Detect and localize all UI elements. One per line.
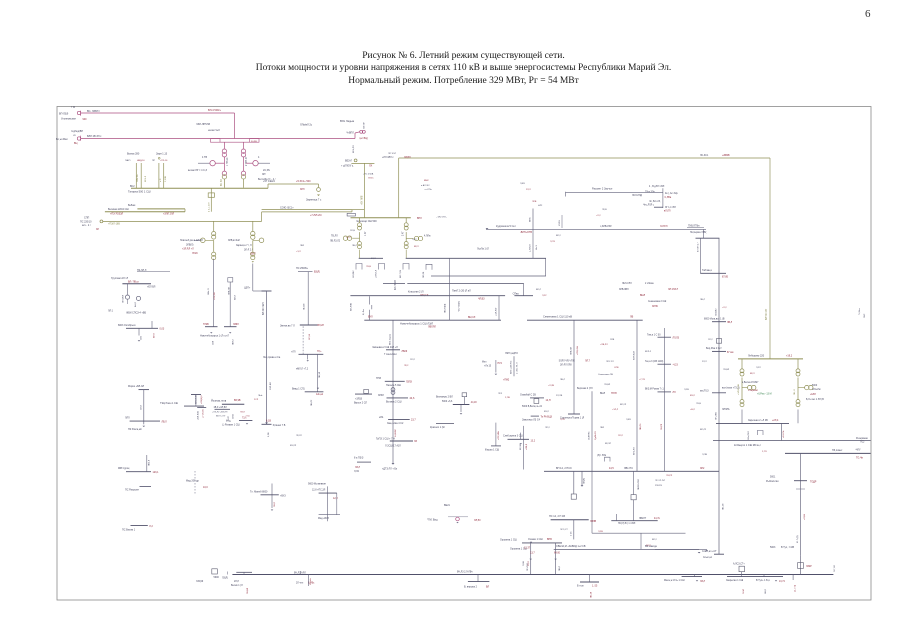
wire bus tie [184,209,186,212]
svg-text:5ЛЛЛ ЧЛУ-ЛЛК: 5ЛЛЛ ЧЛУ-ЛЛК [559,360,576,362]
svg-text:Мед,: Мед, [226,420,232,422]
svg-text:+ПЗ-70/ЗЗЛ: +ПЗ-70/ЗЗЛ [110,213,124,216]
svg-text:Заволжск ЛЗ С4: Заволжск ЛЗ С4 [522,419,541,422]
sub TlManey [261,494,279,496]
sub Morki bus [130,420,160,422]
svg-text:ВКЗ,М Рокам 7 (.): ВКЗ,М Рокам 7 (.) [645,389,664,391]
arrow Volzhsk end [392,463,395,465]
svg-text:Рассвет 2 Заучшт: Рассвет 2 Заучшт [592,187,613,190]
sub Mgzvevkin [319,492,337,494]
svg-text:Заряев,а 7 /, Л: Заряев,а 7 /, Л [236,245,252,247]
svg-text:-ВЛП+ОТВ: -ВЛП+ОТВ [520,231,532,234]
svg-text:Ве5ам: Ве5ам [128,204,136,207]
svg-text:Р20/25: Р20/25 [655,485,663,487]
transformer Lebedevo B1 [796,369,800,373]
wire Lesnoy west [655,548,707,550]
svg-text:6,1В: 6,1В [266,419,271,422]
generator ChGES b [362,130,365,133]
svg-text:ВЗ,ЛЛ: ВЗ,ЛЛ [290,445,297,447]
svg-text:Таблан,и: Таблан,и [702,269,713,272]
svg-text:ЗЛ2С: ЗЛ2С [368,178,374,180]
svg-text:+Лк 15: +Лк 15 [484,366,492,368]
svg-text:ЛЗ: ЛЗ [414,441,418,443]
svg-text:+2С: +2С [228,416,230,420]
svg-text:Семеновка ЛВ: Семеновка ЛВ [598,374,613,376]
wire gen2 lead [258,162,270,164]
arrow pomary [456,522,458,523]
sub bar NchT B [224,326,237,328]
arrow slvb [519,443,522,444]
svg-text:ЗЛ2: ЗЛ2 [700,467,705,470]
svg-text:Л,ВЗ: Л,ВЗ [626,419,631,421]
svg-text:Визнаяры 2 ВЛ: Визнаяры 2 ВЛ [436,395,453,398]
bus Tatarskaya 500 2SSh [137,208,185,210]
sub Krasnos [436,423,454,425]
generator G2 [253,161,258,166]
svg-text:+ дЛЛОЛ/ ц: + дЛЛОЛ/ ц [341,166,354,168]
svg-text:ВЛ,БЛ,М: ВЛ,БЛ,М [196,395,198,404]
load box 719 [716,339,721,344]
load box colC [228,278,233,282]
load bracket 3 [403,264,409,270]
svg-text:НУ2: НУ2 [498,363,503,365]
sub Viznayary [453,404,470,406]
svg-text:+ЗЛ,ВЛ ЗВ: +ЗЛ,ВЛ ЗВ [738,384,740,395]
svg-text:ВНВ: ВНВ [547,539,552,541]
bus PS 14-2 P1V [551,519,589,521]
svg-text:+ЗЛ,ЛЗГ: +ЗЛ,ЛЗГ [496,307,498,316]
svg-text:ЛЗ9Л: ЛЗ9Л [233,324,239,326]
svg-text:ЛВ,-Л: ЛВ,-Л [794,389,796,395]
svg-text:8003 Октябрьск: 8003 Октябрьск [118,324,136,327]
svg-text:ЛЗС: ЛЗС [864,313,866,318]
svg-text:4 ТВ: 4 ТВ [202,156,207,159]
svg-text:Резервная: Резервная [856,437,868,440]
wire gen1 lead [198,162,210,164]
wire zveni dash [302,326,304,341]
svg-text:ЛузЛа 1 (Л: ЛузЛа 1 (Л [477,247,489,250]
bus Zarechnaya [716,422,789,424]
bus Tatarskaya 220 [105,211,185,213]
wire VL500 east drop [769,158,771,359]
svg-text:Л,2Л: Л,2Л [756,367,761,369]
svg-text:Л-7,ЗЛ: Л-7,ЗЛ [834,565,836,572]
arrow mkl [495,374,498,375]
svg-text:ВЛ,2Л: ВЛ,2Л [620,404,627,406]
svg-text:ВМС: ВМС [424,180,429,182]
wire stub562 [561,215,563,228]
svg-text:ЗЛ-ЛЛ ЛЛ8: ЗЛ-ЛЛ ЛЛ8 [560,364,572,366]
bus Semenovka 1SSh [527,319,643,321]
svg-text:1В,9 +ЗЛ,БЛ: 1В,9 +ЗЛ,БЛ [214,407,228,409]
svg-text:Чапаевка 2 СШ 44Л +Л: Чапаевка 2 СШ 44Л +Л [372,346,398,349]
svg-text:ЛЗ,В: ЛЗ,В [366,266,371,268]
svg-text:ВЗ,Л: ВЗ,Л [544,411,549,413]
svg-text:Заю,ллва 4 С2: Заю,ллва 4 С2 [387,422,404,425]
svg-text:ЛЛС 2Л: ЛЛС 2Л [606,361,614,363]
wire pomary [448,516,468,518]
autotransformer AT-B lower [241,171,245,175]
svg-text:ЛЬ,ВЛ: ЛЬ,ВЛ [304,303,306,310]
svg-text:ВЫЛ: ВЫЛ [600,393,606,395]
svg-text:+Л,2: +Л,2 [596,215,601,217]
svg-text:Р,свнал 7 В: Р,свнал 7 В [273,424,286,427]
svg-text:Б,Л+ веч 1 ЛЛ (В: Б,Л+ веч 1 ЛЛ (В [806,399,824,401]
svg-text:2Л,Л: 2Л,Л [646,545,651,547]
sub bar 664 [658,391,672,393]
svg-text:ВЕ21: ВЕ21 [444,504,451,507]
load box ozambay [534,399,539,404]
node Cheboksary500 [354,159,357,162]
sub Igranat [712,321,726,323]
svg-text:44,6: 44,6 [410,397,415,400]
transformer NchTETs A [212,232,216,236]
wire olive colB [252,221,254,231]
wire mad dash [194,471,196,495]
wire olive colA [213,221,215,231]
svg-text:1,-25: 1,-25 [592,586,598,588]
svg-text:ВУ,Л +ЛУ: ВУ,Л +ЛУ [216,415,226,417]
sub Taiganovo top [696,237,720,239]
arrow medv [246,423,248,424]
svg-text:ТЭЦ Рокш 1 СШ: ТЭЦ Рокш 1 СШ [160,402,178,405]
svg-text:ВС ЗЛ: ВС ЗЛ [221,179,223,186]
wire chb xfA top [359,218,361,223]
svg-text:Велик 1 (Л: Велик 1 (Л [231,584,243,587]
sub Taganovo [700,272,726,274]
svg-text:+ЛУ,Н2А: +ЛУ,Н2А [576,346,579,355]
wire okt stub1 [138,328,140,335]
svg-text:ВЫ,СЛ: ВЫ,СЛ [468,317,476,319]
svg-text:5900: 5900 [214,576,220,579]
svg-text:Заря 1,13: Заря 1,13 [156,153,168,156]
bar V1 top [262,290,272,292]
svg-text:Л,2: Л,2 [149,526,153,528]
svg-text:Мкл: Мкл [482,362,487,364]
arrow zakr [775,580,777,581]
svg-text:Вкрыл 2 СЛ: Вкрыл 2 СЛ [354,402,367,405]
svg-text:ЗЛЬ-ЗЬ: ЗЛЬ-ЗЬ [137,174,139,182]
svg-text:+ЛУ,Л-Л: +ЛУ,Л-Л [376,269,378,278]
svg-text:ЛЗ,Л: ЛЗ,Л [274,502,276,507]
svg-text:13,2: 13,2 [531,441,536,443]
bus PS14 second [611,520,657,522]
svg-text:123,1: 123,1 [153,471,160,474]
svg-text:+ЗЛЛ 2ЛЛ: +ЗЛЛ 2ЛЛ [163,213,175,216]
svg-text:Великая 220/2 СШ: Великая 220/2 СШ [108,208,129,211]
bus NchB mid [350,295,505,297]
bus Yola west wing [197,407,206,409]
transformer chb AT1 [358,223,362,227]
svg-text:ВУ,Л: ВУ,Л [414,246,419,248]
transformer Lebedevo B2 [796,400,800,404]
svg-text:СОЮ /ЗС1+: СОЮ /ЗС1+ [280,206,294,209]
svg-text:5001: 5001 [770,475,776,478]
svg-text:ГЛек ЗЛн: ГЛек ЗЛн [645,192,655,194]
load box vkryl [364,389,369,393]
svg-text:Йошкар,ла ■: Йошкар,ла ■ [211,400,226,403]
sub Razrshen [140,485,152,487]
svg-text:Чес,ЛЛЛ с: Чес,ЛЛЛ с [643,205,655,207]
svg-text:НПЗ: НПЗ [376,377,381,380]
svg-text:Волжск 2 СШ: Волжск 2 СШ [386,401,402,404]
svg-text:+ВУЗ: +ВУЗ [280,496,286,498]
svg-text:ВЛ-ЛЛВ: ВЛ-ЛЛВ [351,303,353,311]
svg-text:в,Волна 15ЧМ7: в,Волна 15ЧМ7 [742,382,759,384]
title line 3 [11,76,905,86]
wire zveni dash2 [302,341,304,354]
svg-text:23,7: 23,7 [411,419,416,422]
sub Veryuzha [468,581,490,583]
svg-text:ЛВ,ЗЛ: ЛВ,ЗЛ [591,591,593,598]
sub bar 664 upper [658,336,672,338]
line Yoshkar-Ola - Tsentralnaya (long south line) [232,574,833,576]
sub Zavolzhsky [531,415,539,417]
svg-text:СЛВ: СЛВ [614,367,619,369]
svg-text:2 ТВГ АТ: 2 ТВГ АТ [245,156,248,166]
svg-text:ЛЛа/вЛ 2с: ЛЛа/вЛ 2с [300,123,313,127]
svg-text:87,85: 87,85 [722,276,729,279]
wire leb xfB3 [797,410,799,424]
wire Rassvet line [566,191,663,193]
svg-text:2 зЛимн: 2 зЛимн [645,283,654,285]
svg-text:на ваг Чеб: на ваг Чеб [208,129,220,132]
svg-text:Семеновка 1 СШ 110 кВ: Семеновка 1 СШ 110 кВ [543,314,572,318]
svg-text:14,9ЛМ: 14,9ЛМ [395,429,397,437]
reactor box [208,193,214,197]
wire Vtyazh stub [589,575,591,583]
sub bar teka [658,363,672,365]
svg-text:Группам АЛ тЛ: Группам АЛ тЛ [111,277,129,280]
wire V592 dn [591,471,593,519]
svg-text:ЧУ: ЧУ [73,135,76,137]
wire stub 633 [633,471,635,494]
svg-text:+0,Риа - 13 М: +0,Риа - 13 М [757,393,772,395]
svg-text:ЛВ,ЗЛ: ЛВ,ЗЛ [319,371,321,378]
svg-text:+2Л,4: +2Л,4 [772,419,779,422]
wire veryuzha stub [477,575,479,582]
sub bar NchT A [205,326,218,328]
arrow okt [138,340,141,341]
svg-text:Л 2СШ 17,41Л: Л 2СШ 17,41Л [385,445,401,448]
svg-text:ЛВ2: ЛВ2 [300,245,305,247]
svg-text:ВЛ,2Л: ВЛ,2Л [318,325,325,327]
autotransformer AT-B upper [241,149,245,153]
svg-text:в АЛ /5С: в АЛ /5С [421,184,430,187]
svg-text:ЗЛ,Л: ЗЛ,Л [410,359,415,361]
svg-text:87 мм: 87 мм [727,352,734,354]
generator Kozm G1 [125,295,129,299]
wire mid stub [498,296,500,321]
transformer NchTETs B2 [251,252,255,256]
svg-text:Л,2В: Л,2В [684,389,689,391]
svg-text:Мад 209 др: Мад 209 др [186,480,199,483]
svg-text:+ЛЛ: +ЛЛ [291,352,296,354]
svg-text:ВЗ(Л): ВЗ(Л) [314,272,320,274]
svg-text:2Л,Л: 2Л,Л [234,581,239,583]
svg-text:ЛЗ,ВЛ: ЛЗ,ВЛ [723,369,730,371]
page number [865,8,871,20]
svg-text:ВС- ЛЗВЛ /: ВС- ЛЗВЛ / [87,110,100,113]
arrow line229 [486,228,489,229]
svg-text:Ссыл,ал: Ссыл,ал [703,557,713,559]
sync condenser B1 [414,236,418,240]
svg-text:ЗЛЛ: ЗЛЛ [300,189,305,191]
svg-text:вЛ,ЛЛ: вЛ,ЛЛ [664,211,671,213]
transformer Lebedevo A1 [740,369,744,373]
wire leb xfA [741,359,743,370]
svg-text:Лебедево 220: Лебедево 220 [748,354,765,357]
sub Zakrytaya [727,576,783,578]
svg-text:5000 +6,6: 5000 +6,6 [442,401,453,403]
sub 8a PZ [357,461,371,463]
wire line533 [592,532,686,534]
sync condenser Kilemary G1a [748,385,752,389]
svg-text:ЛВ,Л: ЛВ,Л [352,245,358,247]
svg-text:Мале,ж Усть 1 СШ: Мале,ж Усть 1 СШ [664,579,684,582]
svg-text:Во,ъя Мал: Во,ъя Мал [56,138,68,141]
svg-text:ветам ЛР = 4 С,З: ветам ЛР = 4 С,З [188,169,207,172]
arrow lesnoy [698,552,701,553]
bus NZ line [785,452,871,454]
svg-text:С,ЛВа: С,ЛВа [665,197,672,199]
wire v800 tick [796,488,805,490]
wire VL-500 Ulyanovskaya [81,112,235,114]
wire gen2 tie [246,162,253,164]
svg-text:+19,2: +19,2 [786,354,793,357]
bus NchB mid b [514,295,533,297]
svg-text:+ЛС 2Л2А: +ЛС 2Л2А [363,173,374,176]
sub TETs Roksha [184,405,204,407]
wire AT-B bottom [243,179,245,188]
wire V701 [699,238,701,273]
sub Malinovka [682,576,702,578]
svg-text:+ЗЛ1В: +ЗЛ1В [355,399,362,401]
svg-text:Вохма 280: Вохма 280 [127,153,140,156]
svg-text:+З,Л: +З,Л [296,251,301,253]
wire chb drop [363,163,365,217]
wire Y1 step [267,184,269,188]
svg-text:ЗЛ,В: ЗЛ,В [350,230,355,232]
svg-text:4,ЛЛw: 4,ЛЛw [424,236,431,238]
svg-text:64,00: 64,00 [554,551,561,554]
svg-text:Звениг,ва 7 Л: Звениг,ва 7 Л [280,325,295,328]
svg-text:Л,Л2: Л,Л2 [354,471,360,473]
svg-text:+ЛЗ,ЛВ: +ЛЗ,ЛВ [214,292,216,300]
stal endbar [654,206,663,208]
svg-text:2Л чел: 2Л чел [296,583,304,585]
bus Ozinki upper [522,542,562,544]
svg-text:КЛЯ-82Л: КЛЯ-82Л [634,351,636,360]
wire 220 corridor [103,220,262,222]
svg-text:ЗГ 1,4 /ЛЛ: ЗГ 1,4 /ЛЛ [665,207,676,209]
svg-text:Л,ВЗ: Л,ВЗ [520,183,525,185]
title line 1 [11,51,905,61]
sync condenser Kilemary G2b [809,385,813,389]
svg-text:(1,-7,3): (1,-7,3) [795,585,797,592]
svg-text:ЛЛ,ЛЗ: ЛЛ,ЛЗ [673,338,680,340]
svg-text:ЛВ2: ЛВ2 [600,427,605,429]
svg-text:НЛ2: НЛ2 [538,205,543,207]
svg-text:ЛВ,Л: ЛВ,Л [700,299,706,301]
svg-text:ЗС,04: ЗС,04 [309,333,311,340]
svg-text:ЛЭП (на)ПО: ЛЭП (на)ПО [505,353,518,355]
svg-text:2Л,Л: 2Л,Л [528,561,530,566]
svg-text:ЗЛВ-ЗВЛ: ЗЛВ-ЗВЛ [619,289,629,291]
svg-text:+ЛЗ,Л2 +ВЗ,ЛЛ: +ЛЗ,Л2 +ВЗ,ЛЛ [212,411,228,413]
wire ANS down [308,575,310,587]
svg-text:ВН 14, 2 ПСЗ: ВН 14, 2 ПСЗ [556,467,572,470]
arrow zk2 [554,559,557,560]
svg-text:4 , В,дЛЛ 1 ВЛ: 4 , В,дЛЛ 1 ВЛ [649,186,665,188]
svg-text:ЛСЛ-ЛЛД: ЛСЛ-ЛЛД [632,195,642,197]
sub Biryuva [712,350,726,352]
svg-text:ЗВЬ-Л: ЗВЬ-Л [208,288,210,295]
svg-text:-ЧЛУ: -ЧЛУ [855,449,861,452]
generator Kozm G2 [136,296,140,300]
svg-text:(ел ВЦ): (ел ВЦ) [360,137,368,140]
svg-text:ЛУ29: ЛУ29 [192,253,198,255]
wire olive colB2 [252,241,254,252]
wire chb xfB dn [405,250,407,258]
generator G1 [210,161,215,166]
node Ulyanovskaya 500 [77,111,80,114]
svg-text:ПР: ПР [152,160,156,162]
svg-text:ЗЛ,В: ЗЛ,В [233,414,235,419]
svg-text:ЛВЛЛЛ: ЛВЛЛЛ [428,326,436,329]
svg-text:Л,ЗВ: Л,ЗВ [523,561,525,566]
svg-text:ВУЗ-Л: ВУЗ-Л [145,175,147,182]
wire line 229 [486,228,706,230]
svg-text:5000 В,Волж,ль 24: 5000 В,Волж,ль 24 [522,406,543,408]
wire zarech dn [781,423,783,440]
wire stub 616 [616,514,618,521]
transformer chb AT1b [358,242,362,246]
svg-text:+ВЛ-82А: +ВЛ-82А [196,411,199,420]
svg-text:ЛВ,Л: ЛВ,Л [560,379,566,381]
svg-text:ВЫЛ: ВЫЛ [640,295,646,297]
sync condenser B2 [418,236,422,240]
svg-text:ЛЛ ЗОЛ: ЛЛ ЗОЛ [388,153,396,155]
wire chb xfA dn [359,250,361,258]
svg-text:ч,ЗЛВ-ЛЗУ: ч,ЗЛВ-ЛЗУ [600,225,612,228]
wire zk right [555,543,557,575]
svg-text:12,8 +ПС,ЗЛ: 12,8 +ПС,ЗЛ [312,490,326,492]
svg-text:ЛЗ,РЛ: ЛЗ,РЛ [666,475,673,477]
svg-text:ЛЗ(Л): ЛЗ(Л) [222,577,228,579]
svg-text:В / ЛП 1 /: В / ЛП 1 / [698,242,700,252]
svg-text:ЛУ,В: ЛУ,В [602,209,607,211]
svg-text:ПС 14, 2 П 1В: ПС 14, 2 П 1В [549,515,565,518]
svg-text:Ульяновская: Ульяновская [61,118,76,121]
svg-text:ЗЛч,ЛЗЛ: ЗЛч,ЛЗЛ [748,431,750,440]
svg-text:2Л,Л: 2Л,Л [702,361,707,363]
svg-text:13,7: 13,7 [530,551,535,554]
wire roksh stub [195,395,197,407]
svg-text:ВУЛ-2: ВУЛ-2 [645,351,652,353]
sub Medvedevo [239,420,252,422]
bus Yoshkar-Ola 2 [215,408,231,410]
svg-text:ВКЗ Зарем: ВКЗ Зарем [390,333,392,345]
svg-text:Заречная 2 +Л 4В: Заречная 2 +Л 4В [748,419,768,422]
svg-text:ЛЗ,Л: ЛЗ,Л [240,411,245,413]
svg-text:КлЭнерго 1 СШ КВ: КлЭнерго 1 СШ КВ [734,444,756,447]
svg-text:ЛУ 2Л /5Л: ЛУ 2Л /5Л [655,480,666,482]
svg-text:50,9В: 50,9В [251,141,257,143]
bus Cheboksary 500 [351,217,411,219]
transformer chb AT2b [404,242,408,246]
wire V592 dn2 [591,520,593,534]
